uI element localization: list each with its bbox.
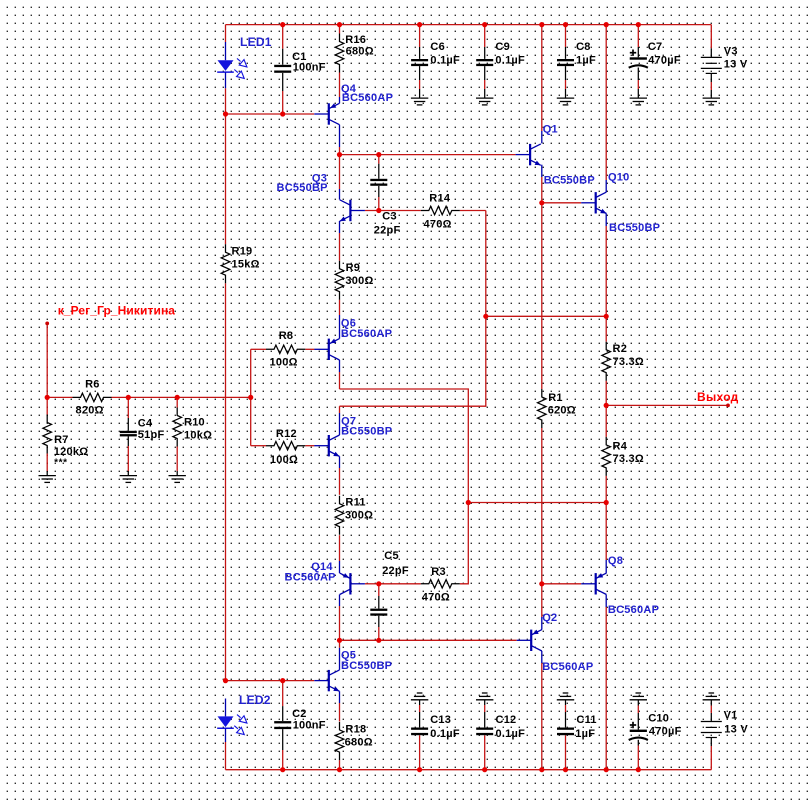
svg-text:Q8: Q8 [608,555,623,567]
svg-text:C5: C5 [384,550,399,562]
svg-text:R18: R18 [345,723,366,735]
svg-text:620Ω: 620Ω [548,405,576,417]
svg-text:R2: R2 [613,343,628,355]
svg-text:BC550BP: BC550BP [544,175,595,187]
svg-text:R8: R8 [279,330,294,342]
svg-text:BC550BP: BC550BP [341,425,392,437]
svg-text:к_Рег_Гр_Никитина: к_Рег_Гр_Никитина [58,304,176,318]
svg-text:R3: R3 [431,566,446,578]
svg-text:***: *** [54,458,67,469]
svg-text:100nF: 100nF [293,61,326,73]
svg-text:300Ω: 300Ω [345,275,373,287]
svg-text:R7: R7 [54,434,69,446]
svg-text:680Ω: 680Ω [346,46,374,58]
svg-text:470µF: 470µF [649,726,682,738]
svg-text:Q2: Q2 [542,612,557,624]
svg-text:13 V: 13 V [724,59,748,71]
svg-text:300Ω: 300Ω [345,510,373,522]
svg-text:120kΩ: 120kΩ [54,446,89,458]
svg-text:470Ω: 470Ω [422,592,450,604]
svg-text:C4: C4 [138,417,153,429]
svg-text:V3: V3 [724,46,738,58]
svg-text:470Ω: 470Ω [424,219,452,231]
svg-text:LED2: LED2 [239,693,271,707]
svg-text:73.3Ω: 73.3Ω [613,453,644,465]
svg-text:BC550BP: BC550BP [609,222,660,234]
svg-text:Выход: Выход [697,390,739,404]
svg-text:15kΩ: 15kΩ [232,259,260,271]
svg-text:C3: C3 [382,211,397,223]
svg-text:V1: V1 [724,709,738,721]
svg-text:BC560AP: BC560AP [285,572,336,584]
svg-text:R16: R16 [345,34,366,46]
svg-text:1µF: 1µF [576,54,596,66]
svg-text:C6: C6 [430,41,445,53]
svg-text:470µF: 470µF [648,54,681,66]
svg-text:1µF: 1µF [575,728,595,740]
svg-text:C13: C13 [430,714,451,726]
svg-text:R6: R6 [85,379,100,391]
svg-text:0.1µF: 0.1µF [430,54,460,66]
svg-text:BC550BP: BC550BP [341,660,392,672]
svg-text:0.1µF: 0.1µF [495,54,525,66]
svg-text:C10: C10 [648,712,669,724]
svg-text:13 V: 13 V [724,724,748,736]
svg-text:51pF: 51pF [138,429,165,441]
svg-text:R12: R12 [276,428,297,440]
svg-text:LED1: LED1 [240,35,272,49]
svg-text:680Ω: 680Ω [345,737,373,749]
svg-text:100Ω: 100Ω [270,454,298,466]
svg-text:0.1µF: 0.1µF [430,728,460,740]
svg-text:R1: R1 [548,392,563,404]
svg-text:820Ω: 820Ω [76,405,104,417]
svg-text:C11: C11 [576,714,596,726]
svg-text:BC550BP: BC550BP [277,182,328,194]
svg-text:R14: R14 [429,192,451,204]
svg-text:BC560AP: BC560AP [608,604,659,616]
svg-text:BC560AP: BC560AP [342,92,393,104]
svg-text:BC560AP: BC560AP [341,328,392,340]
svg-text:C9: C9 [495,41,510,53]
svg-text:R4: R4 [613,440,628,452]
svg-text:C2: C2 [292,708,307,720]
svg-text:100nF: 100nF [293,720,326,732]
svg-text:R9: R9 [346,262,361,274]
svg-text:Q1: Q1 [543,124,558,136]
svg-text:C8: C8 [576,41,591,53]
svg-text:BC560AP: BC560AP [542,661,593,673]
svg-text:R11: R11 [345,497,365,509]
svg-text:100Ω: 100Ω [270,356,298,368]
svg-text:Q10: Q10 [608,172,630,184]
svg-text:22pF: 22pF [374,225,401,237]
svg-text:C7: C7 [648,41,663,53]
svg-text:10kΩ: 10kΩ [184,429,212,441]
svg-text:R10: R10 [184,417,205,429]
svg-text:73.3Ω: 73.3Ω [613,356,644,368]
svg-text:R19: R19 [232,245,253,257]
svg-text:22pF: 22pF [382,565,409,577]
svg-text:0.1µF: 0.1µF [496,728,526,740]
svg-text:C12: C12 [496,714,517,726]
